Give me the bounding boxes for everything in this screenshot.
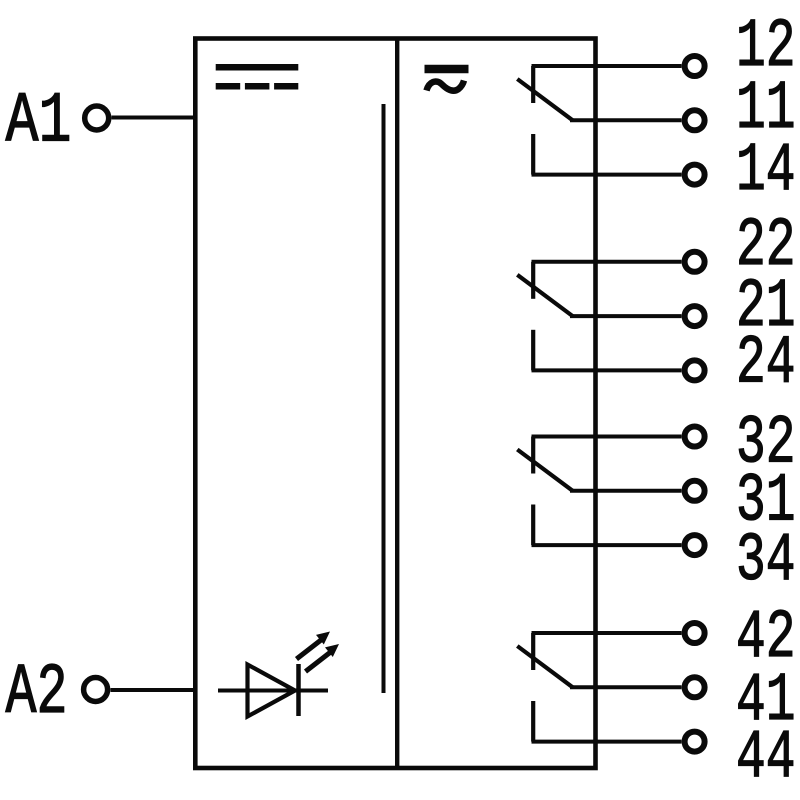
svg-text:A1: A1 bbox=[6, 83, 72, 163]
svg-text:A2: A2 bbox=[6, 654, 68, 734]
svg-text:44: 44 bbox=[736, 719, 796, 797]
svg-text:14: 14 bbox=[736, 132, 796, 210]
svg-text:24: 24 bbox=[736, 324, 796, 402]
svg-text:34: 34 bbox=[736, 522, 796, 600]
